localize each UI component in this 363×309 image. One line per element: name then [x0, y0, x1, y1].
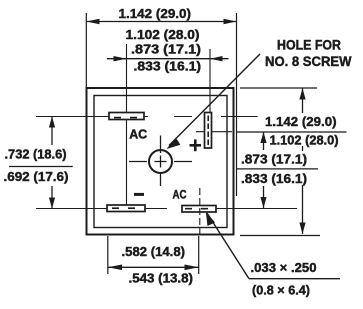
label minus [134, 193, 144, 196]
leader to mounting hole [169, 54, 260, 146]
right fraction bar under 1.142 (extension of + terminal centerline) [237, 131, 347, 133]
svg-text:.873 (17.1): .873 (17.1) [131, 43, 201, 57]
arrowheads [49, 19, 306, 270]
arrow bottom dim left [108, 265, 122, 271]
arrow top dim 1.142 right [224, 19, 237, 24]
svg-text:AC: AC [173, 190, 187, 202]
terminal AC top [109, 113, 144, 120]
svg-text:.692 (17.6): .692 (17.6) [4, 170, 69, 184]
arrow right dim .873 up [260, 132, 266, 143]
terminal minus bottom-left [107, 205, 145, 212]
package inner square [94, 96, 227, 228]
leader to slot terminal [207, 213, 249, 279]
svg-text:.833 (16.1): .833 (16.1) [134, 59, 202, 73]
terminal plus right [205, 113, 212, 149]
svg-text:HOLE FOR: HOLE FOR [277, 38, 341, 53]
arrow top dim .873 right (outside, points left) [210, 56, 223, 61]
top dimension extension line left x=86.3 [85, 13, 87, 88]
left dimension line .732/.692 x=52 [51, 117, 53, 146]
svg-text:.582 (14.8): .582 (14.8) [122, 245, 186, 259]
top dimension extension line right x=236.5 [236, 13, 238, 196]
right dimension line 1.142/1.102 x=302.5 [302, 88, 304, 113]
bottom extension line left x=107.8 [107, 236, 109, 274]
svg-text:1.102 (28.0): 1.102 (28.0) [270, 134, 339, 148]
right extension line y=235.5 [240, 235, 320, 237]
arrow top dim 1.142 left [86, 19, 99, 24]
label plus [190, 139, 202, 151]
centerline vertical extension above + terminal [209, 49, 211, 113]
slot note fraction bar [249, 278, 340, 280]
centerline horizontal through + terminal y=131.5 [196, 131, 232, 133]
arrow right dim 1.142 down [299, 223, 305, 235]
package outer square [87, 88, 234, 235]
hole crosshair horizontal [129, 161, 192, 163]
centerline dashed vertical through AC bottom-right terminal [199, 188, 201, 234]
svg-text:NO. 8 SCREW: NO. 8 SCREW [265, 54, 352, 69]
svg-text:.732 (18.6): .732 (18.6) [5, 148, 67, 162]
svg-text:(0.8 × 6.4): (0.8 × 6.4) [252, 284, 310, 298]
centerline vertical through AC top terminal down to minus terminal [126, 44, 128, 205]
svg-text:.033 × .250: .033 × .250 [251, 261, 317, 275]
svg-text:.873 (17.1): .873 (17.1) [241, 153, 307, 167]
hole crosshair vertical [160, 136, 162, 187]
svg-text:1.142 (29.0): 1.142 (29.0) [265, 115, 337, 129]
dimension line .873/.833 top (arrows outside) [107, 58, 229, 60]
centerline horizontal through AC top terminal y=116.5 [36, 116, 258, 118]
bottom extension line right x=198.7 [198, 236, 200, 274]
terminal AC bottom-right [182, 206, 216, 213]
centerline horizontal through bottom terminals y=208.5 [36, 208, 297, 210]
arrowhead leader hole [167, 138, 181, 149]
arrow left dim down [49, 198, 55, 209]
right fraction bar under .873 [236, 168, 318, 170]
dimension line 1.142/1.102 top [86, 21, 236, 23]
arrowhead leader slot [206, 212, 215, 227]
svg-text:1.142 (29.0): 1.142 (29.0) [119, 7, 192, 21]
left fraction bar [9, 166, 73, 168]
arrow top dim .873 left (outside, points right) [114, 56, 127, 61]
mounting hole circle [149, 150, 172, 173]
svg-text:.833 (16.1): .833 (16.1) [241, 172, 307, 186]
right extension line y=88 [240, 87, 317, 89]
right dimension line .873/.833 x=263.5 [263, 132, 265, 150]
arrow right dim .873 down [260, 197, 266, 208]
bottom dimension line .582/.543 [108, 266, 199, 268]
svg-text:1.102 (28.0): 1.102 (28.0) [126, 28, 200, 42]
arrow bottom dim right [185, 265, 199, 271]
svg-text:AC: AC [129, 127, 148, 142]
arrow left dim up [49, 117, 55, 128]
svg-text:.543 (13.8): .543 (13.8) [129, 272, 194, 286]
arrow right dim 1.142 up [299, 88, 305, 100]
